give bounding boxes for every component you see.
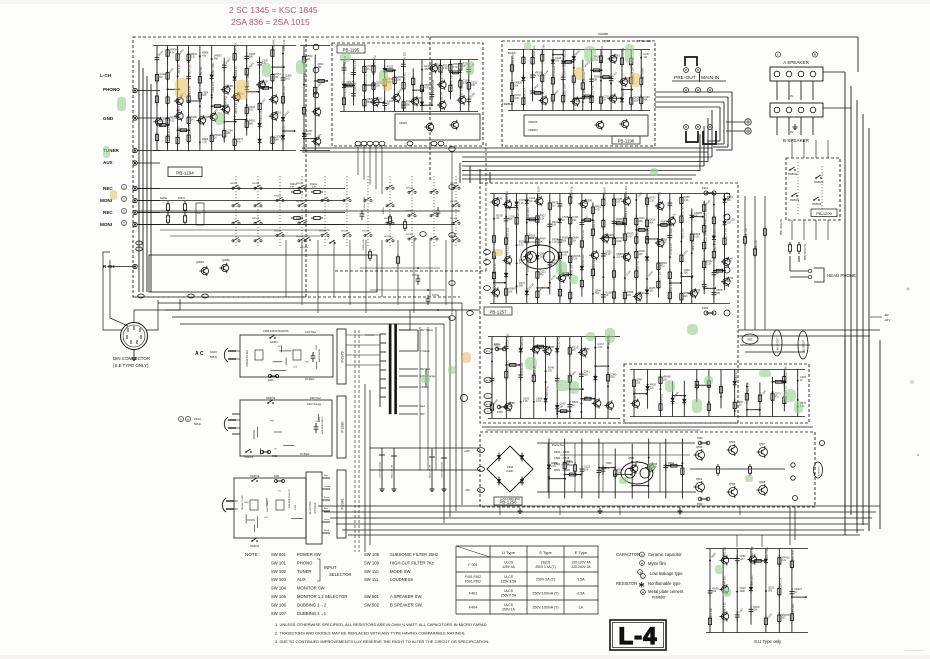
svg-text:R105a: R105a bbox=[160, 198, 167, 200]
svg-text:F501: F501 bbox=[697, 437, 703, 440]
svg-text:56K: 56K bbox=[249, 123, 254, 126]
svg-text:R340 1M: R340 1M bbox=[601, 46, 604, 56]
svg-text:330: 330 bbox=[716, 292, 721, 295]
svg-text:1K: 1K bbox=[572, 404, 575, 407]
svg-text:P-2379: P-2379 bbox=[341, 351, 345, 362]
svg-text:PB-1195: PB-1195 bbox=[343, 48, 360, 53]
svg-text:1K: 1K bbox=[584, 202, 587, 205]
svg-text:PB-1257: PB-1257 bbox=[489, 310, 507, 315]
svg-text:Q005b: Q005b bbox=[222, 258, 230, 262]
svg-text:PHONO: PHONO bbox=[297, 560, 313, 565]
svg-text:R789 100P: R789 100P bbox=[634, 388, 637, 401]
svg-text:0V Black: 0V Black bbox=[300, 453, 310, 456]
svg-text:10K: 10K bbox=[514, 84, 519, 87]
svg-text:C004 2200P MURATA: C004 2200P MURATA bbox=[263, 329, 289, 333]
svg-text:56K: 56K bbox=[249, 56, 254, 59]
svg-text:C189 4.7K: C189 4.7K bbox=[625, 207, 628, 219]
svg-text:C171a 3300P: C171a 3300P bbox=[364, 196, 366, 210]
svg-text:CAPACITOR: CAPACITOR bbox=[616, 552, 640, 557]
svg-text:P401: P401 bbox=[702, 186, 709, 190]
svg-text:+43V: +43V bbox=[464, 449, 470, 453]
svg-text:R444 4.7K: R444 4.7K bbox=[168, 125, 171, 137]
svg-text:SW001b: SW001b bbox=[244, 456, 254, 459]
svg-text:0.01: 0.01 bbox=[551, 465, 556, 468]
svg-text:0.01: 0.01 bbox=[170, 119, 175, 122]
svg-text:SW103: SW103 bbox=[450, 218, 458, 220]
svg-text:220: 220 bbox=[684, 295, 689, 298]
svg-text:220: 220 bbox=[572, 219, 577, 222]
svg-text:100P: 100P bbox=[661, 241, 667, 244]
svg-text:125V 3.5A: 125V 3.5A bbox=[501, 580, 517, 584]
svg-text:SW106: SW106 bbox=[296, 183, 304, 185]
svg-text:C001: C001 bbox=[316, 344, 318, 350]
svg-text:C785 0.01: C785 0.01 bbox=[506, 246, 509, 258]
svg-text:1: 1 bbox=[123, 185, 125, 189]
svg-text:RIFA PME 271M 610: RIFA PME 271M 610 bbox=[288, 488, 291, 508]
svg-text:SW 109: SW 109 bbox=[364, 560, 380, 565]
svg-text:D495 56K: D495 56K bbox=[792, 603, 795, 614]
svg-text:R329 10K: R329 10K bbox=[785, 366, 788, 377]
svg-text:1K: 1K bbox=[552, 204, 555, 207]
svg-text:240V Red: 240V Red bbox=[310, 397, 321, 400]
svg-text:220: 220 bbox=[639, 220, 644, 223]
svg-text:AUX: AUX bbox=[103, 160, 114, 165]
svg-text:INPUT: INPUT bbox=[324, 565, 337, 570]
svg-text:SW501b: SW501b bbox=[814, 181, 824, 184]
svg-text:F001: F001 bbox=[268, 379, 274, 382]
svg-text:0.01: 0.01 bbox=[191, 56, 196, 59]
svg-text:R429 56K: R429 56K bbox=[273, 39, 276, 50]
svg-text:4.7K: 4.7K bbox=[548, 349, 553, 352]
svg-text:R913 56K: R913 56K bbox=[682, 205, 685, 216]
svg-text:10K: 10K bbox=[584, 468, 589, 471]
svg-text:1K: 1K bbox=[275, 114, 278, 117]
svg-text:R123a: R123a bbox=[383, 207, 385, 214]
svg-text:R120 1M: R120 1M bbox=[704, 233, 707, 243]
svg-text:C232 47µ: C232 47µ bbox=[557, 336, 560, 347]
svg-text:DUBBING 2→1: DUBBING 2→1 bbox=[297, 611, 327, 616]
svg-text:Red: Red bbox=[420, 404, 425, 408]
svg-text:Q369 56K: Q369 56K bbox=[593, 258, 596, 270]
svg-text:Q757 330: Q757 330 bbox=[659, 271, 662, 283]
svg-text:2 SC 1345 = KSC 1845: 2 SC 1345 = KSC 1845 bbox=[229, 5, 318, 15]
svg-text:6.8K: 6.8K bbox=[312, 187, 317, 189]
svg-text:47µ: 47µ bbox=[202, 54, 207, 57]
svg-text:SW 105: SW 105 bbox=[271, 594, 287, 599]
svg-text:47µ: 47µ bbox=[775, 395, 780, 398]
svg-text:Q501 ~ Q508: Q501 ~ Q508 bbox=[554, 468, 570, 472]
svg-text:8Ω SP OUT: 8Ω SP OUT bbox=[804, 339, 806, 352]
svg-text:D792 4.7K: D792 4.7K bbox=[747, 382, 750, 394]
svg-text:SW 111: SW 111 bbox=[364, 577, 379, 582]
svg-text:Q561 2.2K: Q561 2.2K bbox=[235, 102, 238, 114]
svg-text:100P: 100P bbox=[694, 292, 700, 295]
svg-text:PB-1194: PB-1194 bbox=[176, 171, 194, 176]
svg-text:0.01: 0.01 bbox=[610, 376, 615, 379]
svg-text:1M: 1M bbox=[159, 76, 162, 79]
svg-text:1K: 1K bbox=[794, 591, 797, 594]
svg-text:C898 1K: C898 1K bbox=[354, 82, 357, 92]
svg-text:B SPEAKER: B SPEAKER bbox=[783, 138, 810, 143]
svg-text:330: 330 bbox=[649, 290, 654, 293]
svg-text:C355 10K: C355 10K bbox=[189, 124, 192, 135]
svg-text:-B2: -B2 bbox=[884, 313, 889, 317]
svg-text:0.01: 0.01 bbox=[285, 77, 290, 80]
svg-text:C510 2.2K: C510 2.2K bbox=[354, 59, 357, 71]
svg-text:100P: 100P bbox=[739, 590, 745, 593]
svg-text:C338 2.2K: C338 2.2K bbox=[779, 577, 782, 589]
svg-text:R856 2.2K: R856 2.2K bbox=[692, 239, 695, 251]
svg-text:R958 100: R958 100 bbox=[494, 279, 497, 290]
svg-text:Q005a: Q005a bbox=[196, 260, 204, 264]
svg-text:SW 107: SW 107 bbox=[271, 611, 287, 616]
svg-text:100V: 100V bbox=[210, 350, 217, 354]
svg-text:F404: F404 bbox=[469, 605, 477, 609]
svg-text:56K: 56K bbox=[595, 292, 600, 295]
svg-text:SW102: SW102 bbox=[362, 231, 370, 233]
svg-text:10K: 10K bbox=[509, 405, 514, 408]
svg-text:NOTE :: NOTE : bbox=[245, 552, 260, 557]
svg-text:10K: 10K bbox=[627, 294, 632, 297]
svg-text:SW001a: SW001a bbox=[250, 475, 260, 478]
svg-text:Q307: Q307 bbox=[604, 40, 611, 43]
svg-text:SW 001: SW 001 bbox=[271, 552, 287, 557]
svg-text:330: 330 bbox=[636, 382, 641, 385]
svg-text:56K: 56K bbox=[508, 218, 513, 221]
svg-text:VR696 10K: VR696 10K bbox=[533, 45, 536, 58]
svg-text:C911 4.7K: C911 4.7K bbox=[512, 54, 515, 66]
svg-text:1M: 1M bbox=[559, 405, 562, 408]
svg-text:MATSUSHITA: MATSUSHITA bbox=[318, 349, 321, 362]
svg-text:C379 330: C379 330 bbox=[725, 227, 728, 238]
svg-text:F403: F403 bbox=[469, 591, 477, 595]
svg-text:Parts No.: Parts No. bbox=[552, 443, 565, 447]
svg-text:100: 100 bbox=[616, 201, 621, 204]
svg-text:D771 56K: D771 56K bbox=[542, 44, 545, 55]
svg-text:SUBSONIC FILTER 25Hz: SUBSONIC FILTER 25Hz bbox=[390, 552, 438, 557]
svg-text:R624 220: R624 220 bbox=[189, 64, 192, 75]
svg-text:250V 100mA (T): 250V 100mA (T) bbox=[532, 605, 558, 609]
svg-text:SW0: SW0 bbox=[244, 502, 250, 504]
svg-text:Q501: Q501 bbox=[628, 456, 635, 460]
svg-text:2.2K: 2.2K bbox=[519, 202, 524, 205]
svg-text:R501 ~ R530: R501 ~ R530 bbox=[554, 450, 570, 454]
svg-text:R120 1K: R120 1K bbox=[178, 64, 181, 74]
svg-text:MONI: MONI bbox=[100, 222, 112, 227]
svg-text:D736 100: D736 100 bbox=[404, 72, 407, 83]
svg-text:VR673 10K: VR673 10K bbox=[636, 224, 639, 237]
svg-text:4.7K: 4.7K bbox=[424, 87, 429, 90]
svg-text:(S.E TYPE ONLY): (S.E TYPE ONLY) bbox=[113, 363, 149, 368]
svg-text:C927 330: C927 330 bbox=[751, 546, 754, 557]
svg-text:0.01: 0.01 bbox=[782, 559, 787, 562]
svg-text:SW103: SW103 bbox=[296, 201, 304, 203]
svg-text:10K: 10K bbox=[508, 290, 513, 293]
svg-text:R417 330: R417 330 bbox=[212, 63, 215, 74]
svg-text:10K: 10K bbox=[552, 224, 557, 227]
svg-text:MAIN-IN: MAIN-IN bbox=[701, 75, 720, 81]
svg-text:100P: 100P bbox=[616, 240, 622, 243]
svg-text:0.01: 0.01 bbox=[737, 404, 742, 407]
svg-text:Q797 1M: Q797 1M bbox=[451, 76, 454, 86]
svg-text:35V Yellow: 35V Yellow bbox=[420, 328, 433, 332]
svg-text:1K: 1K bbox=[540, 241, 543, 244]
svg-text:47K: 47K bbox=[197, 213, 201, 215]
svg-text:D700 56K: D700 56K bbox=[622, 47, 625, 58]
svg-text:250V 2A (T): 250V 2A (T) bbox=[536, 577, 555, 581]
svg-text:SW104: SW104 bbox=[252, 183, 260, 185]
svg-text:RESISTOR: RESISTOR bbox=[616, 581, 637, 586]
svg-text:220: 220 bbox=[584, 351, 589, 354]
svg-text:R845 2.2K: R845 2.2K bbox=[506, 360, 509, 372]
svg-text:C771 220: C771 220 bbox=[404, 51, 407, 62]
svg-text:R222 330: R222 330 bbox=[710, 607, 713, 618]
svg-text:C705 2.2K: C705 2.2K bbox=[582, 229, 585, 241]
svg-text:Q279 56K: Q279 56K bbox=[641, 67, 644, 79]
svg-text:56K: 56K bbox=[406, 103, 411, 106]
svg-text:C297 0.01: C297 0.01 bbox=[659, 191, 662, 203]
svg-text:2: 2 bbox=[123, 209, 125, 213]
svg-text:-43V: -43V bbox=[465, 488, 471, 492]
svg-text:ULCS: ULCS bbox=[504, 603, 514, 607]
svg-text:VR816 220: VR816 220 bbox=[553, 65, 556, 78]
svg-text:Black: Black bbox=[324, 530, 329, 532]
svg-text:330: 330 bbox=[576, 100, 581, 103]
svg-text:C650 4.7K: C650 4.7K bbox=[714, 240, 717, 252]
svg-text:L-CH: L-CH bbox=[100, 73, 112, 78]
svg-text:C001: C001 bbox=[295, 504, 297, 510]
svg-text:R492 100: R492 100 bbox=[756, 239, 758, 250]
svg-text:C980 0.01: C980 0.01 bbox=[723, 602, 726, 614]
svg-text:4.7K: 4.7K bbox=[627, 235, 632, 238]
svg-text:R265 47µ: R265 47µ bbox=[441, 71, 444, 82]
svg-text:330: 330 bbox=[613, 57, 618, 60]
svg-text:C336 100P: C336 100P bbox=[670, 280, 673, 293]
svg-text:0V Black: 0V Black bbox=[305, 378, 315, 381]
svg-text:C509 47µ: C509 47µ bbox=[546, 386, 549, 397]
svg-text:D665 100: D665 100 bbox=[751, 575, 754, 586]
svg-text:Q503: Q503 bbox=[696, 446, 703, 449]
svg-text:10K: 10K bbox=[159, 120, 164, 123]
svg-text:F001: F001 bbox=[274, 475, 280, 478]
svg-text:E: E bbox=[187, 418, 189, 422]
svg-text:Q-R711 180Ω: Q-R711 180Ω bbox=[636, 40, 651, 43]
svg-text:C377 47µ: C377 47µ bbox=[766, 547, 769, 558]
svg-text:R298 330: R298 330 bbox=[521, 362, 524, 373]
svg-text:A SP OUT: A SP OUT bbox=[818, 465, 821, 476]
svg-text:100: 100 bbox=[397, 79, 402, 82]
svg-text:330: 330 bbox=[249, 109, 254, 112]
svg-text:47µ: 47µ bbox=[237, 141, 242, 144]
svg-text:HIGH CUT FILTER 7Kz: HIGH CUT FILTER 7Kz bbox=[390, 560, 434, 565]
svg-text:D584 2.2K: D584 2.2K bbox=[260, 110, 263, 122]
svg-text:330: 330 bbox=[548, 370, 553, 373]
svg-text:MONI: MONI bbox=[100, 198, 112, 203]
svg-text:SW 108: SW 108 bbox=[364, 552, 380, 557]
svg-text:2.2K: 2.2K bbox=[684, 199, 689, 202]
svg-text:2: 2 bbox=[123, 221, 125, 225]
svg-text:C984 10K: C984 10K bbox=[521, 336, 524, 347]
svg-text:4.7K: 4.7K bbox=[453, 66, 458, 69]
svg-text:0.5A: 0.5A bbox=[577, 591, 585, 595]
svg-text:Q504: Q504 bbox=[696, 478, 703, 481]
svg-text:56K: 56K bbox=[562, 239, 567, 242]
svg-text:0.01: 0.01 bbox=[624, 80, 629, 83]
svg-text:SW001: SW001 bbox=[270, 341, 279, 344]
svg-text:0.01: 0.01 bbox=[306, 133, 311, 136]
svg-text:SW102: SW102 bbox=[274, 196, 282, 198]
svg-text:1K: 1K bbox=[562, 219, 565, 222]
svg-text:F404: F404 bbox=[494, 343, 500, 346]
svg-text:220: 220 bbox=[694, 215, 699, 218]
svg-text:Low leakage type: Low leakage type bbox=[650, 571, 683, 576]
svg-text:C711 1K: C711 1K bbox=[494, 263, 497, 273]
svg-text:1K: 1K bbox=[606, 294, 609, 297]
svg-text:SWITCHED: SWITCHED bbox=[267, 500, 269, 512]
svg-text:S,U Type only: S,U Type only bbox=[754, 639, 782, 644]
svg-text:125V 4A: 125V 4A bbox=[502, 565, 515, 569]
svg-text:R684 47µ: R684 47µ bbox=[224, 96, 227, 107]
svg-text:Q508: Q508 bbox=[759, 481, 766, 484]
svg-text:2.2K: 2.2K bbox=[598, 346, 603, 349]
svg-text:C168 56K: C168 56K bbox=[200, 66, 203, 77]
svg-text:ULCS: ULCS bbox=[504, 575, 514, 579]
svg-text:1K: 1K bbox=[463, 65, 466, 68]
svg-text:BASS: BASS bbox=[508, 51, 516, 55]
svg-text:35V Red: 35V Red bbox=[420, 367, 431, 371]
svg-text:POWER SW.: POWER SW. bbox=[297, 552, 322, 557]
svg-text:SW104: SW104 bbox=[384, 236, 392, 238]
svg-text:Q542 10K: Q542 10K bbox=[524, 87, 527, 99]
svg-text:VR695 330: VR695 330 bbox=[647, 224, 650, 237]
svg-text:2.2K: 2.2K bbox=[523, 400, 528, 403]
svg-text:50Hz: 50Hz bbox=[210, 355, 218, 359]
svg-text:2.2K: 2.2K bbox=[443, 67, 448, 70]
svg-text:SELECTOR: SELECTOR bbox=[329, 572, 352, 577]
svg-text:4.7K: 4.7K bbox=[535, 74, 540, 77]
svg-text:4.7K: 4.7K bbox=[202, 119, 207, 122]
svg-text:Metal plate cement: Metal plate cement bbox=[648, 589, 684, 594]
svg-text:SW 110: SW 110 bbox=[364, 569, 379, 574]
svg-text:100: 100 bbox=[376, 84, 381, 87]
svg-text:D384 100P: D384 100P bbox=[603, 187, 606, 200]
svg-text:56K: 56K bbox=[768, 589, 773, 592]
svg-text:VR635 10K: VR635 10K bbox=[625, 186, 628, 199]
svg-text:1M: 1M bbox=[275, 76, 278, 79]
svg-text:10K: 10K bbox=[226, 132, 231, 135]
svg-text:2.2K: 2.2K bbox=[572, 258, 577, 261]
svg-text:Q401 DUAL: Q401 DUAL bbox=[524, 240, 540, 244]
svg-text:SW104: SW104 bbox=[406, 187, 414, 189]
svg-text:C588 47µ: C588 47µ bbox=[570, 186, 573, 197]
svg-text:R125a 15K: R125a 15K bbox=[363, 239, 365, 250]
svg-text:SW102: SW102 bbox=[319, 231, 327, 233]
svg-text:C518: C518 bbox=[507, 465, 514, 469]
svg-text:R195 100: R195 100 bbox=[506, 227, 509, 238]
svg-text:PB-1196: PB-1196 bbox=[618, 139, 635, 144]
svg-text:0.01: 0.01 bbox=[536, 400, 541, 403]
svg-text:100P: 100P bbox=[633, 99, 639, 102]
svg-text:R107a: R107a bbox=[178, 198, 185, 200]
svg-text:P400: P400 bbox=[702, 306, 709, 310]
svg-text:1M: 1M bbox=[606, 237, 609, 240]
svg-text:C365 0.01: C365 0.01 bbox=[283, 39, 286, 51]
svg-text:B SPEAKER SW.: B SPEAKER SW. bbox=[390, 602, 423, 607]
svg-text:C953 47µ: C953 47µ bbox=[374, 55, 377, 66]
svg-text:REC: REC bbox=[103, 210, 113, 215]
svg-text:330: 330 bbox=[727, 280, 732, 283]
svg-text:R933 100: R933 100 bbox=[582, 254, 585, 265]
svg-text:SW 106: SW 106 bbox=[271, 602, 287, 607]
svg-text:Q507: Q507 bbox=[759, 443, 766, 446]
svg-text:1M: 1M bbox=[529, 200, 532, 203]
svg-text:100V Blue: 100V Blue bbox=[305, 331, 317, 334]
svg-text:A C: A C bbox=[195, 351, 204, 357]
svg-text:100P: 100P bbox=[567, 464, 573, 467]
svg-text:2.2K: 2.2K bbox=[694, 236, 699, 239]
svg-text:100: 100 bbox=[639, 253, 644, 256]
svg-text:Q181 1M: Q181 1M bbox=[441, 92, 444, 102]
svg-text:P-2380: P-2380 bbox=[341, 421, 345, 432]
svg-text:250V 0.5A: 250V 0.5A bbox=[501, 594, 517, 598]
svg-text:SW0: SW0 bbox=[315, 421, 321, 423]
svg-text:220: 220 bbox=[650, 386, 655, 389]
svg-text:C949 10K: C949 10K bbox=[517, 207, 520, 218]
svg-text:1K: 1K bbox=[214, 137, 217, 140]
svg-text:PB-1209: PB-1209 bbox=[816, 211, 832, 216]
svg-text:1M: 1M bbox=[617, 471, 620, 474]
svg-text:1K: 1K bbox=[191, 119, 194, 122]
svg-text:47µ: 47µ bbox=[367, 68, 372, 71]
svg-text:resistor: resistor bbox=[652, 595, 666, 600]
svg-text:C002 50V/10000µ: C002 50V/10000µ bbox=[380, 461, 382, 478]
svg-text:F 001: F 001 bbox=[468, 563, 477, 567]
svg-text:2. TRASISTORS AND DIODES MAY B: 2. TRASISTORS AND DIODES MAY BE REPLACED… bbox=[275, 631, 466, 636]
svg-text:D794 2.2K: D794 2.2K bbox=[670, 242, 673, 254]
svg-text:Q545 10K: Q545 10K bbox=[723, 575, 726, 587]
svg-text:L: L bbox=[777, 53, 779, 57]
svg-text:C400 1M: C400 1M bbox=[189, 87, 192, 97]
svg-text:R517: R517 bbox=[566, 461, 572, 463]
svg-text:F502: F502 bbox=[697, 503, 703, 506]
svg-text:C562 100P: C562 100P bbox=[538, 186, 541, 199]
svg-text:1K: 1K bbox=[387, 103, 390, 106]
svg-text:4Ω SP OUT: 4Ω SP OUT bbox=[778, 337, 780, 350]
svg-text:SW 502: SW 502 bbox=[364, 602, 380, 607]
svg-text:Nonflamable type: Nonflamable type bbox=[648, 581, 681, 586]
svg-text:SW101: SW101 bbox=[274, 231, 282, 233]
svg-text:1M: 1M bbox=[639, 295, 642, 298]
svg-text:1K: 1K bbox=[800, 379, 803, 382]
svg-text:220: 220 bbox=[584, 374, 589, 377]
svg-text:Q805 100: Q805 100 bbox=[723, 546, 726, 558]
svg-text:2.2K: 2.2K bbox=[540, 217, 545, 220]
svg-text:ULCS: ULCS bbox=[504, 589, 514, 593]
svg-text:SW 104: SW 104 bbox=[271, 586, 287, 591]
svg-text:SW502b: SW502b bbox=[812, 203, 822, 206]
svg-text:0.01: 0.01 bbox=[562, 254, 567, 257]
svg-text:2.2K: 2.2K bbox=[649, 200, 654, 203]
svg-text:S Type: S Type bbox=[539, 550, 552, 555]
svg-text:100P: 100P bbox=[540, 255, 546, 258]
svg-text:100: 100 bbox=[555, 60, 560, 63]
svg-text:56K: 56K bbox=[275, 139, 280, 142]
svg-text:SW502a: SW502a bbox=[790, 199, 800, 202]
svg-text:Red: Red bbox=[324, 475, 328, 477]
svg-text:D107 1M: D107 1M bbox=[461, 87, 464, 97]
svg-text:R491 100: R491 100 bbox=[746, 227, 748, 238]
svg-text:PRE-OUT: PRE-OUT bbox=[674, 75, 696, 81]
